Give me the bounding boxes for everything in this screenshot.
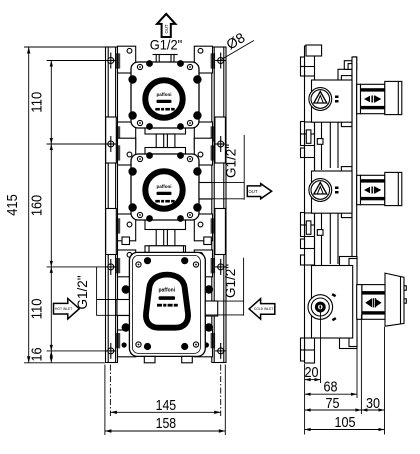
chain dim line left (110/160/110/16)	[29, 61, 108, 363]
COLD leader module3 right	[205, 258, 243, 316]
end cap	[385, 81, 402, 114]
module3 bracket plates	[118, 250, 213, 357]
knob circle	[308, 295, 333, 320]
tiny arc marks	[332, 293, 337, 297]
cap (tall, slight perspective)	[385, 273, 404, 326]
svg-text:68: 68	[324, 378, 338, 395]
HOT leader module3 left	[74, 267, 129, 316]
module1 knob ring	[143, 78, 185, 120]
side view dims	[305, 312, 385, 435]
side module3 (thermostat)	[308, 257, 406, 349]
SIDE VIEW	[301, 45, 407, 363]
dim 20	[305, 379, 321, 381]
svg-text:OUT: OUT	[249, 189, 258, 194]
left mounting rail	[106, 47, 118, 363]
svg-text:110: 110	[29, 298, 46, 319]
module3 logo paffoni	[157, 288, 178, 307]
top port stub G1/2	[153, 55, 178, 66]
dim 68	[305, 393, 357, 395]
module3 top stub	[149, 246, 184, 253]
module3 rail clamp tabs	[116, 258, 215, 348]
svg-text:20: 20	[305, 364, 319, 381]
module1 rail clamp tabs (hatched)	[116, 53, 215, 141]
module3 plate	[129, 252, 205, 356]
side module1	[309, 76, 402, 127]
module2 rail clamp tabs	[116, 145, 215, 233]
module1 corner holes	[137, 64, 192, 125]
svg-text:110: 110	[29, 92, 46, 113]
top port stub (side)	[306, 45, 322, 56]
wall plate (rail side)	[305, 46, 315, 363]
svg-text:HOT INLET: HOT INLET	[55, 307, 72, 311]
rail crosshair holes	[105, 53, 226, 359]
svg-text:G1/2": G1/2"	[74, 275, 90, 309]
nut	[362, 285, 385, 320]
wall plate left tabs	[301, 57, 305, 361]
dim 75	[305, 409, 362, 411]
module1 bracket plates	[118, 46, 213, 149]
svg-text:16: 16	[29, 348, 46, 362]
module1 plate	[131, 62, 199, 128]
module2 right OUT port stub	[199, 183, 212, 200]
COLD INLET block arrow (pointing left)	[249, 299, 275, 319]
connector H between module1 and module2	[145, 128, 186, 155]
svg-text:75: 75	[326, 395, 340, 412]
svg-text:G1/2": G1/2"	[222, 264, 238, 298]
OUT block arrow right	[247, 184, 271, 199]
pipes between side modules	[315, 120, 339, 266]
rail joint plates	[106, 117, 226, 255]
module2 logo paffoni	[155, 184, 174, 203]
HOT INLET block arrow (pointing right)	[54, 299, 80, 319]
module3 right cold inlet stub	[205, 301, 217, 316]
top OUT arrow	[157, 14, 175, 37]
module3 corner screws	[122, 257, 213, 350]
module3 corner holes	[132, 255, 200, 353]
OUT leader module2 right	[199, 135, 244, 200]
dim 145 bottom	[110, 365, 220, 417]
module3 thermostat cover (rounded trapezoid)	[146, 275, 188, 328]
svg-text:paffoni: paffoni	[157, 184, 172, 189]
dim 415 overall left	[4, 47, 106, 363]
svg-text:160: 160	[29, 195, 46, 216]
svg-text:G1/2": G1/2"	[150, 37, 183, 53]
module2 knob ring	[143, 169, 185, 211]
dim 30	[361, 409, 384, 411]
svg-text:OUT: OUT	[164, 24, 169, 33]
module1 logo paffoni	[155, 92, 174, 111]
dim 158 bottom	[105, 365, 225, 436]
svg-text:G1/2": G1/2"	[222, 144, 238, 178]
svg-text:145: 145	[156, 397, 177, 414]
svg-text:158: 158	[156, 415, 177, 432]
module3 bottom outlet stubs	[144, 356, 192, 362]
svg-text:COLD INLET: COLD INLET	[254, 307, 273, 311]
label diameter 8	[221, 29, 253, 59]
module2 corner screws	[128, 152, 201, 222]
svg-text:415: 415	[4, 194, 21, 216]
vertical manifold pipes behind modules	[158, 65, 174, 356]
dim 105	[305, 429, 385, 431]
tiny marks	[335, 96, 339, 99]
module2 corner holes	[137, 156, 192, 217]
nut with stripes	[361, 84, 385, 113]
FRONT VIEW	[105, 46, 226, 363]
svg-text:paffoni: paffoni	[158, 288, 175, 294]
module1 corner screws	[128, 60, 201, 130]
wall plate cross lines	[305, 67, 315, 351]
side module2	[309, 167, 402, 218]
svg-text:30: 30	[366, 395, 380, 412]
right mounting rail	[212, 47, 226, 363]
body	[312, 80, 353, 122]
upper mounting stubs (side)	[338, 69, 352, 80]
long mounting bar (flange column)	[352, 57, 357, 348]
connector H between module2 and module3	[122, 219, 211, 252]
ext lines	[304, 364, 306, 435]
flange tabs	[341, 76, 352, 85]
triangle logo	[314, 92, 327, 104]
valve face circle	[309, 88, 332, 111]
module3 left hot inlet stub	[117, 300, 129, 316]
svg-text:paffoni: paffoni	[157, 92, 172, 97]
module2 plate	[131, 154, 199, 220]
svg-text:105: 105	[335, 414, 356, 431]
module2 bracket plates	[118, 138, 213, 241]
